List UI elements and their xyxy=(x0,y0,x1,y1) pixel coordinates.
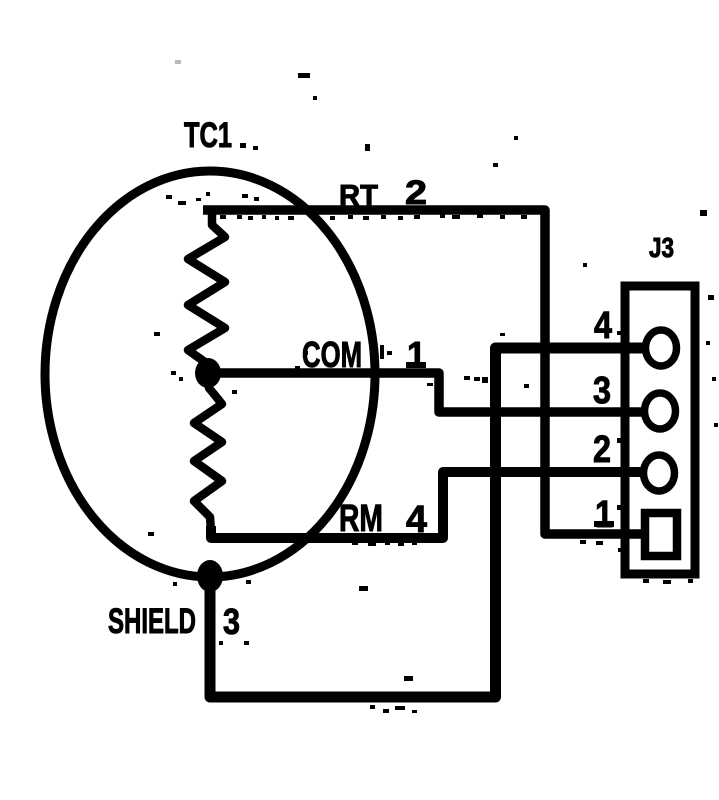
svg-text:3: 3 xyxy=(593,370,611,412)
svg-text:1: 1 xyxy=(407,334,426,375)
svg-text:2: 2 xyxy=(593,429,611,471)
svg-text:COM: COM xyxy=(302,334,362,375)
resistor RM (lower zigzag) xyxy=(194,381,222,531)
connector J3 body xyxy=(625,286,695,574)
wire COM: TC1 pin 1 to J3 pin 3 xyxy=(214,373,644,412)
node SHIELD junction dot xyxy=(197,560,223,592)
J3 pin 4 socket xyxy=(646,330,677,366)
sensor TC1 body circle xyxy=(45,171,375,577)
wire SHIELD: TC1 pin 3 to J3 pin 4 xyxy=(210,348,644,697)
J3 pin 1 socket (square) xyxy=(645,513,677,556)
svg-text:RM: RM xyxy=(339,498,383,540)
wire RM: TC1 pin 4 to J3 pin 2 xyxy=(211,472,644,538)
resistor RT (upper zigzag) xyxy=(188,212,225,365)
wire RT: TC1 pin 2 to J3 pin 1 xyxy=(203,210,643,534)
J3 pin 2 socket xyxy=(644,455,675,491)
svg-text:4: 4 xyxy=(594,305,612,347)
svg-text:TC1: TC1 xyxy=(184,116,232,155)
svg-text:4: 4 xyxy=(406,499,427,541)
svg-text:2: 2 xyxy=(405,174,427,212)
svg-text:RT: RT xyxy=(339,178,378,213)
svg-text:SHIELD: SHIELD xyxy=(108,602,196,641)
svg-text:3: 3 xyxy=(223,601,240,642)
J3 pin 3 socket xyxy=(645,393,676,429)
svg-text:J3: J3 xyxy=(649,232,674,263)
node COM junction dot xyxy=(195,358,221,388)
svg-text:1: 1 xyxy=(595,494,613,536)
